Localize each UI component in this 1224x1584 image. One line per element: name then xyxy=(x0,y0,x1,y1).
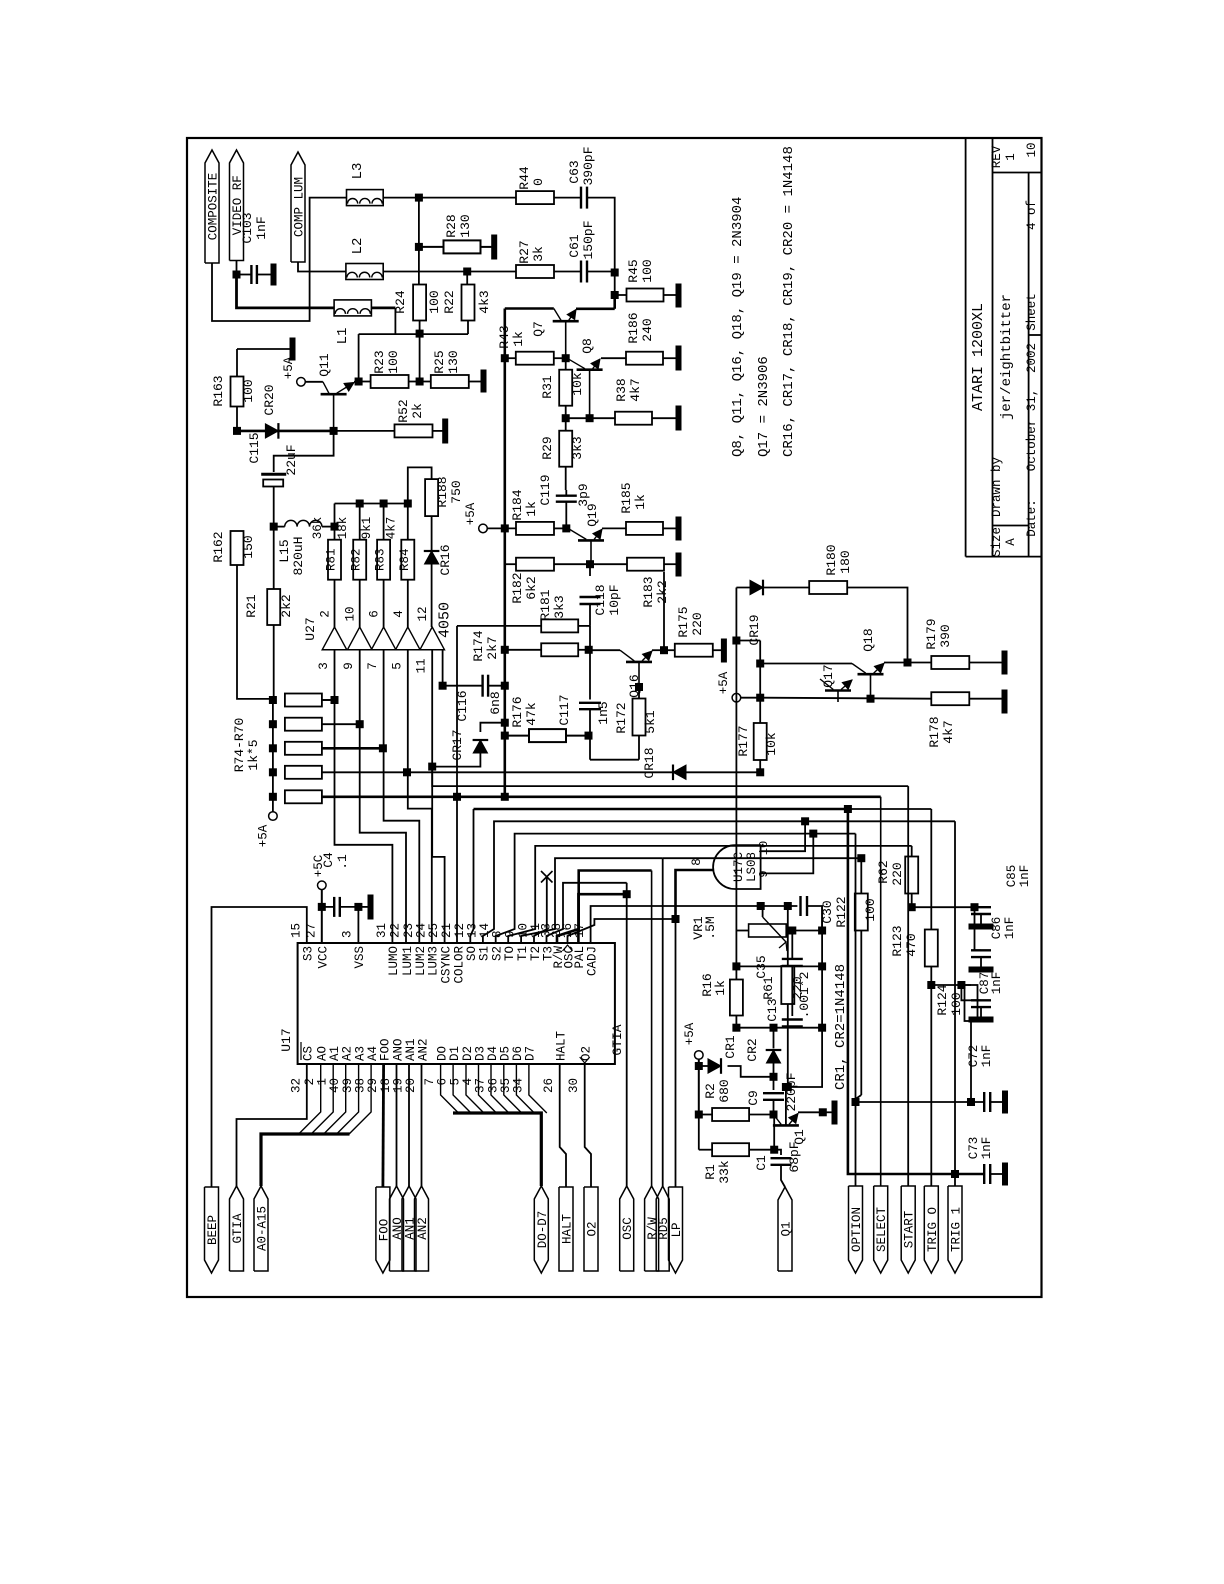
wire C63 to mix node xyxy=(587,198,615,273)
resistors R81-R84 with values xyxy=(328,540,341,580)
svg-text:LP: LP xyxy=(670,1222,684,1237)
svg-text:1: 1 xyxy=(1004,153,1018,161)
wire START from row A xyxy=(432,767,908,787)
svg-text:2002: 2002 xyxy=(1025,343,1039,373)
svg-text:150pF: 150pF xyxy=(581,220,596,259)
svg-text:L2: L2 xyxy=(350,238,366,255)
svg-text:12: 12 xyxy=(416,606,430,621)
diode CR20 xyxy=(237,430,334,433)
svg-text:1nF: 1nF xyxy=(980,1137,994,1160)
wire COLOR column from R181 row xyxy=(456,626,458,943)
svg-text:29: 29 xyxy=(366,1078,380,1093)
svg-text:DO-D7: DO-D7 xyxy=(536,1211,550,1249)
svg-text:CR17: CR17 xyxy=(450,729,465,760)
wire R2 to base node xyxy=(749,1114,773,1116)
svg-text:+5A: +5A xyxy=(683,1022,697,1045)
svg-text:T1: T1 xyxy=(516,946,530,961)
diode CR17 xyxy=(480,723,505,732)
svg-text:40: 40 xyxy=(328,1078,342,1093)
svg-text:R61: R61 xyxy=(761,976,776,1000)
net T0 to R62 and C85 xyxy=(508,846,912,943)
svg-text:220: 220 xyxy=(790,976,805,999)
resistor R180 xyxy=(809,581,847,594)
net S2 to OPTION xyxy=(496,834,856,943)
svg-text:.1: .1 xyxy=(335,854,350,870)
svg-text:220: 220 xyxy=(890,862,905,885)
svg-text:130: 130 xyxy=(458,214,473,237)
svg-text:1k: 1k xyxy=(511,331,526,347)
wire LP flag xyxy=(675,919,677,1187)
svg-text:C61: C61 xyxy=(567,234,582,258)
connector AN0 xyxy=(390,1186,404,1271)
svg-text:10: 10 xyxy=(344,606,358,621)
capacitor C87 column xyxy=(958,982,965,989)
svg-text:8: 8 xyxy=(690,858,704,866)
svg-text:180: 180 xyxy=(838,550,853,573)
svg-text:R27: R27 xyxy=(517,240,532,263)
svg-text:34: 34 xyxy=(511,1078,525,1093)
svg-text:HALT: HALT xyxy=(555,1030,569,1061)
ground for R38 xyxy=(676,406,681,430)
svg-text:CADJ: CADJ xyxy=(585,946,599,976)
diode CR18 row from bank row4 xyxy=(407,771,760,773)
rail above R81-R84 xyxy=(335,503,408,505)
row C72 on OPTION line xyxy=(856,1101,985,1103)
svg-text:R1: R1 xyxy=(703,1164,718,1180)
ground for R175 xyxy=(721,639,726,662)
svg-text:3: 3 xyxy=(341,930,355,938)
svg-text:Q8: Q8 xyxy=(580,338,595,354)
capacitor C118 xyxy=(589,564,591,576)
svg-text:LUM1: LUM1 xyxy=(401,946,415,976)
svg-text:5: 5 xyxy=(390,662,404,670)
connector START xyxy=(901,1186,915,1273)
connector R/W xyxy=(645,1186,659,1271)
connector AN1 xyxy=(402,1186,416,1271)
svg-text:Size: Size xyxy=(990,527,1004,557)
bus D0-D7 xyxy=(453,1113,541,1186)
resistor R21 xyxy=(267,589,280,625)
net T2 no connect with X xyxy=(534,877,547,943)
wire T1 row extension to R122 xyxy=(663,857,862,859)
row lower oscillator xyxy=(736,1027,822,1029)
connector A0-A15 xyxy=(254,1186,268,1271)
svg-text:R52: R52 xyxy=(396,399,411,422)
resistor R184 xyxy=(516,522,554,535)
svg-text:36k: 36k xyxy=(311,517,325,540)
net T3 to OSC flag xyxy=(547,883,627,943)
svg-text:+5A: +5A xyxy=(464,502,478,525)
resistor R163 xyxy=(231,377,244,407)
svg-text:Q1: Q1 xyxy=(780,1221,794,1236)
svg-text:9: 9 xyxy=(342,662,356,670)
wire GTIA to CS xyxy=(237,1064,307,1186)
svg-text:Sheet: Sheet xyxy=(1025,293,1039,331)
wire SELECT from bank row5 thick xyxy=(457,795,881,798)
svg-text:100: 100 xyxy=(640,259,655,282)
svg-text:100: 100 xyxy=(386,350,401,373)
oscillator right rail xyxy=(786,906,822,1087)
resistor R27 xyxy=(516,265,554,278)
svg-text:C119: C119 xyxy=(538,474,553,505)
svg-text:+5A: +5A xyxy=(257,824,271,847)
svg-text:32: 32 xyxy=(289,1078,303,1093)
svg-text:6k2: 6k2 xyxy=(524,576,539,599)
svg-text:R186: R186 xyxy=(626,312,641,343)
svg-text:D7: D7 xyxy=(524,1046,538,1061)
svg-text:1nF: 1nF xyxy=(254,216,269,239)
diode CR2 xyxy=(773,1028,775,1049)
resistor R38 xyxy=(615,412,652,425)
svg-text:R31: R31 xyxy=(540,375,555,399)
connector OSC xyxy=(620,1186,634,1271)
svg-text:REV: REV xyxy=(990,145,1004,168)
bank row wires to LUM columns xyxy=(322,699,335,701)
svg-text:L15: L15 xyxy=(277,539,292,562)
thick branch to C73 row xyxy=(848,809,955,1174)
svg-text:CR20: CR20 xyxy=(262,384,277,415)
svg-text:CR18: CR18 xyxy=(642,747,657,778)
capacitor C72 xyxy=(983,1092,985,1112)
svg-text:R2: R2 xyxy=(703,1083,718,1099)
net R/W pin to R/W flag xyxy=(557,871,652,944)
wire R61 tap on CADJ row xyxy=(784,903,791,910)
ground for C73 xyxy=(1003,1163,1008,1185)
svg-text:1nF: 1nF xyxy=(990,972,1004,995)
Q19 collector / C117 column xyxy=(589,626,591,650)
svg-text:COMP LUM: COMP LUM xyxy=(293,177,307,237)
connector O2 xyxy=(584,1187,598,1271)
svg-text:3k3: 3k3 xyxy=(552,595,567,618)
row C73 thick xyxy=(955,1173,984,1176)
svg-text:10: 10 xyxy=(1025,142,1039,157)
resistor R181 xyxy=(457,625,541,627)
svg-text:HALT: HALT xyxy=(561,1214,575,1245)
connector HALT xyxy=(559,1187,573,1271)
net S0 to TRIG 0 with R123 xyxy=(470,809,473,943)
wire Q16 emitter to R183 node xyxy=(663,572,665,650)
connector OPTION xyxy=(849,1186,863,1273)
svg-text:R123: R123 xyxy=(890,925,905,956)
svg-text:680: 680 xyxy=(717,1079,732,1102)
connector TRIG 0 xyxy=(924,1186,938,1273)
wire COMP LUM to L2 xyxy=(298,262,346,272)
svg-text:R182: R182 xyxy=(510,572,525,603)
svg-text:100: 100 xyxy=(427,290,442,313)
svg-text:S3: S3 xyxy=(302,946,316,961)
title block xyxy=(965,138,967,557)
VSS pin wire xyxy=(357,907,359,943)
svg-text:1k: 1k xyxy=(713,980,728,996)
svg-text:240: 240 xyxy=(640,318,655,341)
connector BEEP xyxy=(205,1187,219,1273)
svg-text:U17: U17 xyxy=(279,1028,294,1051)
svg-text:2k: 2k xyxy=(410,403,425,419)
svg-text:GTIA: GTIA xyxy=(610,1024,625,1055)
resistor R44 xyxy=(516,191,554,204)
connector TRIG 1 xyxy=(948,1186,962,1273)
svg-text:10k: 10k xyxy=(570,372,585,396)
capacitor C115 electrolytic xyxy=(274,431,334,472)
buffer U27 4050 triangles xyxy=(322,649,445,651)
svg-text:C103: C103 xyxy=(240,212,255,243)
svg-text:Drawn by: Drawn by xyxy=(990,456,1004,517)
+5C terminal and VCC wire xyxy=(318,881,327,890)
+5A rail of bank xyxy=(272,699,274,812)
+5A terminal oscillator xyxy=(695,1051,704,1060)
capacitor C35 xyxy=(782,958,803,960)
svg-text:COMPOSITE: COMPOSITE xyxy=(207,173,221,241)
svg-text:1n5: 1n5 xyxy=(596,701,611,724)
resistor R182 xyxy=(516,558,554,571)
capacitor C30 xyxy=(761,905,798,907)
svg-text:R38: R38 xyxy=(614,378,629,401)
svg-text:C63: C63 xyxy=(567,160,582,183)
capacitor C116 xyxy=(501,682,508,689)
svg-text:Q7: Q7 xyxy=(531,321,546,337)
resistor R23 xyxy=(371,375,409,388)
svg-text:R184: R184 xyxy=(510,489,525,520)
svg-text:SELECT: SELECT xyxy=(875,1207,889,1253)
+5A terminal at R177 xyxy=(732,693,741,702)
svg-text:Q8, Q11, Q16, Q18, Q19 = 2N390: Q8, Q11, Q16, Q18, Q19 = 2N3904 xyxy=(730,197,746,457)
wire R180 to Q18 collector node xyxy=(847,588,907,663)
svg-text:47k: 47k xyxy=(524,702,539,726)
svg-text:C73: C73 xyxy=(967,1137,981,1160)
svg-text:20: 20 xyxy=(404,1078,418,1093)
wire AN0 xyxy=(396,1064,398,1186)
svg-text:R162: R162 xyxy=(211,531,226,562)
resistor R178 xyxy=(931,692,969,705)
svg-text:6: 6 xyxy=(436,1078,450,1086)
svg-text:4 of: 4 of xyxy=(1025,200,1039,230)
svg-text:R174: R174 xyxy=(471,630,486,661)
capacitor C4 bypass xyxy=(322,906,334,908)
gate U17C LS08 xyxy=(713,845,760,889)
svg-text:AN2: AN2 xyxy=(416,1038,430,1061)
svg-text:R23: R23 xyxy=(372,350,387,373)
Q7 emitter to video mix node xyxy=(576,307,615,310)
capacitor C13 xyxy=(791,966,793,1016)
diode CR1 xyxy=(708,1059,721,1073)
resistor R185 xyxy=(602,527,626,529)
svg-text:0: 0 xyxy=(531,178,546,186)
svg-text:jer/eightbitter: jer/eightbitter xyxy=(999,294,1015,420)
svg-text:100: 100 xyxy=(241,379,256,402)
ground for R185 xyxy=(676,517,681,540)
svg-text:22: 22 xyxy=(389,923,403,938)
svg-text:470: 470 xyxy=(904,933,919,956)
ground for C87 xyxy=(980,1007,982,1017)
svg-text:A2: A2 xyxy=(341,1046,355,1061)
wire COMPOSITE net xyxy=(212,198,347,321)
svg-text:AN2: AN2 xyxy=(416,1217,430,1240)
ground for C86 xyxy=(980,957,982,967)
connector Q1 output xyxy=(778,1187,792,1271)
svg-text:820uH: 820uH xyxy=(291,536,306,575)
resistor R43 xyxy=(501,355,508,362)
svg-text:R179: R179 xyxy=(924,618,939,649)
capacitor C103 xyxy=(236,261,238,275)
svg-text:R81: R81 xyxy=(325,548,339,571)
ground for R183 xyxy=(676,553,681,576)
svg-text:3p9: 3p9 xyxy=(576,483,591,506)
junction Q8 collector row xyxy=(586,415,593,422)
svg-text:R83: R83 xyxy=(374,548,388,571)
svg-text:3k: 3k xyxy=(531,246,546,262)
svg-text:C117: C117 xyxy=(557,694,572,725)
svg-text:TRIG O: TRIG O xyxy=(926,1207,940,1252)
capacitor C85 xyxy=(971,906,991,908)
inductor L15 xyxy=(285,520,322,526)
resistor R183 xyxy=(590,563,627,565)
potentiometer VR1 xyxy=(749,924,787,937)
svg-text:1k: 1k xyxy=(633,494,648,510)
OSC clock chevron xyxy=(563,945,573,951)
svg-text:4k7: 4k7 xyxy=(628,378,643,401)
svg-text:25: 25 xyxy=(427,923,441,938)
junction Q18 collector to row xyxy=(867,695,874,702)
wire Q1 emitter to ground xyxy=(798,1111,823,1113)
resistor R172 xyxy=(633,699,646,736)
ground for R28 xyxy=(492,235,497,259)
svg-text:4: 4 xyxy=(392,610,406,618)
connector VIDEO RF xyxy=(230,150,244,261)
svg-text:October 31,: October 31, xyxy=(1025,389,1039,472)
svg-text:Q11: Q11 xyxy=(317,353,332,377)
connector RD5 xyxy=(656,1186,669,1271)
svg-text:C72: C72 xyxy=(967,1045,981,1068)
resistor R177 xyxy=(754,723,767,760)
ground for R178 xyxy=(1002,690,1007,713)
svg-text:R176: R176 xyxy=(510,696,525,727)
inductor L1 xyxy=(334,300,371,316)
capacitor C73 xyxy=(983,1164,985,1184)
svg-text:D1: D1 xyxy=(448,1046,462,1061)
svg-text:4k7: 4k7 xyxy=(384,517,398,540)
diode CR19 xyxy=(736,587,754,589)
+5A terminal at R184 xyxy=(479,524,488,533)
svg-text:R183: R183 xyxy=(641,576,656,607)
CS overline xyxy=(300,1042,302,1060)
resistor bank R74-R70 xyxy=(285,694,322,707)
bus FOO xyxy=(381,1064,385,1187)
resistor R188 xyxy=(425,479,438,516)
ground for R179 xyxy=(1002,651,1007,674)
inductor L3 xyxy=(347,190,384,206)
row mid oscillator xyxy=(736,965,822,967)
resistor R122 xyxy=(860,858,862,893)
+5A terminal at Q11 xyxy=(297,378,306,387)
O2 pin chevron xyxy=(580,1057,590,1063)
svg-text:OSC: OSC xyxy=(621,1217,635,1240)
svg-text:FOO: FOO xyxy=(378,1038,392,1061)
row C85 xyxy=(912,906,971,908)
svg-text:START: START xyxy=(903,1210,917,1248)
resistor R52 xyxy=(395,424,433,437)
ground for R52 xyxy=(443,419,448,443)
svg-text:LUMO: LUMO xyxy=(387,946,401,976)
svg-text:31: 31 xyxy=(375,923,389,938)
svg-text:Q18: Q18 xyxy=(861,628,876,651)
resistor R174 xyxy=(541,643,578,656)
resistor R61 xyxy=(781,966,794,1004)
svg-text:R21: R21 xyxy=(244,594,259,618)
net CADJ to VR1 row xyxy=(591,906,761,943)
svg-text:C13: C13 xyxy=(765,998,780,1021)
svg-text:R82: R82 xyxy=(350,548,364,571)
svg-text:2k7: 2k7 xyxy=(485,636,500,659)
svg-text:CR2: CR2 xyxy=(745,1038,760,1061)
svg-text:390pF: 390pF xyxy=(581,146,596,185)
rail to R188 xyxy=(408,467,432,503)
svg-text:VSS: VSS xyxy=(353,946,367,969)
svg-text:1nF: 1nF xyxy=(980,1045,994,1068)
capacitor C1 xyxy=(774,1150,781,1155)
wire Q17 base line xyxy=(759,641,761,699)
connector FOO xyxy=(376,1187,390,1273)
svg-text:10: 10 xyxy=(757,841,771,855)
svg-text:R181: R181 xyxy=(538,589,553,620)
svg-text:2k2: 2k2 xyxy=(279,594,294,617)
svg-text:Q17: Q17 xyxy=(821,664,836,687)
gate input pin 10 from S1 row xyxy=(761,821,806,851)
svg-text:C9: C9 xyxy=(746,1090,761,1106)
svg-text:C116: C116 xyxy=(455,690,470,721)
svg-text:.5M: .5M xyxy=(703,916,718,939)
svg-text:R163: R163 xyxy=(211,375,226,406)
svg-text:30: 30 xyxy=(567,1078,581,1093)
svg-text:2: 2 xyxy=(319,610,333,618)
resistor R62 xyxy=(905,857,918,894)
junction Q16 collector xyxy=(636,684,643,691)
svg-text:7: 7 xyxy=(366,662,380,670)
resistor R24 xyxy=(418,198,420,285)
svg-text:R25: R25 xyxy=(432,350,447,373)
capacitor C9 xyxy=(773,1077,775,1090)
svg-text:ATARI 1200XL: ATARI 1200XL xyxy=(970,303,987,411)
connector COMPOSITE xyxy=(205,150,219,263)
svg-text:A: A xyxy=(1004,538,1018,546)
wire L2 row to R27 xyxy=(383,271,516,273)
X mark no-connect xyxy=(541,871,553,883)
wire Q18 base from Q17 node xyxy=(760,663,852,665)
svg-text:L1: L1 xyxy=(335,328,351,345)
svg-text:R62: R62 xyxy=(876,860,891,883)
4050 outputs down to LUM pin jogs xyxy=(335,650,393,943)
svg-text:U27: U27 xyxy=(303,617,318,640)
svg-text:R43: R43 xyxy=(497,325,512,348)
svg-text:1k: 1k xyxy=(524,501,539,517)
ground for C72 xyxy=(1003,1091,1008,1113)
resistor R22 xyxy=(466,272,468,285)
svg-text:L3: L3 xyxy=(350,163,366,180)
ground for R186 xyxy=(676,346,681,370)
resistor R25 xyxy=(431,375,469,388)
svg-text:R45: R45 xyxy=(626,259,641,282)
svg-text:C86: C86 xyxy=(990,917,1004,940)
inductor L2 xyxy=(346,264,383,280)
svg-text:2k2: 2k2 xyxy=(655,580,670,603)
border frame xyxy=(187,138,1042,1297)
net T1 to RD5 xyxy=(521,858,663,943)
svg-text:Q19: Q19 xyxy=(585,503,600,526)
VR1 leads xyxy=(736,930,748,932)
svg-text:BEEP: BEEP xyxy=(206,1215,220,1245)
svg-text:GTIA: GTIA xyxy=(231,1213,245,1244)
svg-text:R84: R84 xyxy=(398,548,412,571)
connector D0-D7 xyxy=(534,1186,548,1273)
